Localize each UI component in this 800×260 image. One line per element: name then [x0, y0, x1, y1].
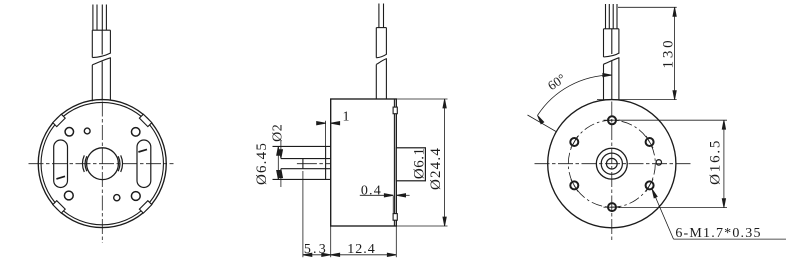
svg-text:Ø24.4: Ø24.4 [428, 147, 444, 190]
svg-text:0.4: 0.4 [361, 183, 382, 198]
svg-text:5.3: 5.3 [304, 242, 328, 257]
svg-text:6-M1.7*0.35: 6-M1.7*0.35 [675, 226, 761, 241]
svg-text:1: 1 [343, 110, 350, 125]
svg-text:12.4: 12.4 [347, 242, 376, 257]
svg-text:Ø16.5: Ø16.5 [708, 139, 724, 185]
svg-text:130: 130 [661, 38, 677, 69]
svg-text:60°: 60° [545, 70, 568, 93]
svg-text:Ø2: Ø2 [270, 124, 285, 142]
svg-text:Ø6.1: Ø6.1 [412, 148, 428, 180]
svg-text:Ø6.45: Ø6.45 [254, 142, 270, 185]
